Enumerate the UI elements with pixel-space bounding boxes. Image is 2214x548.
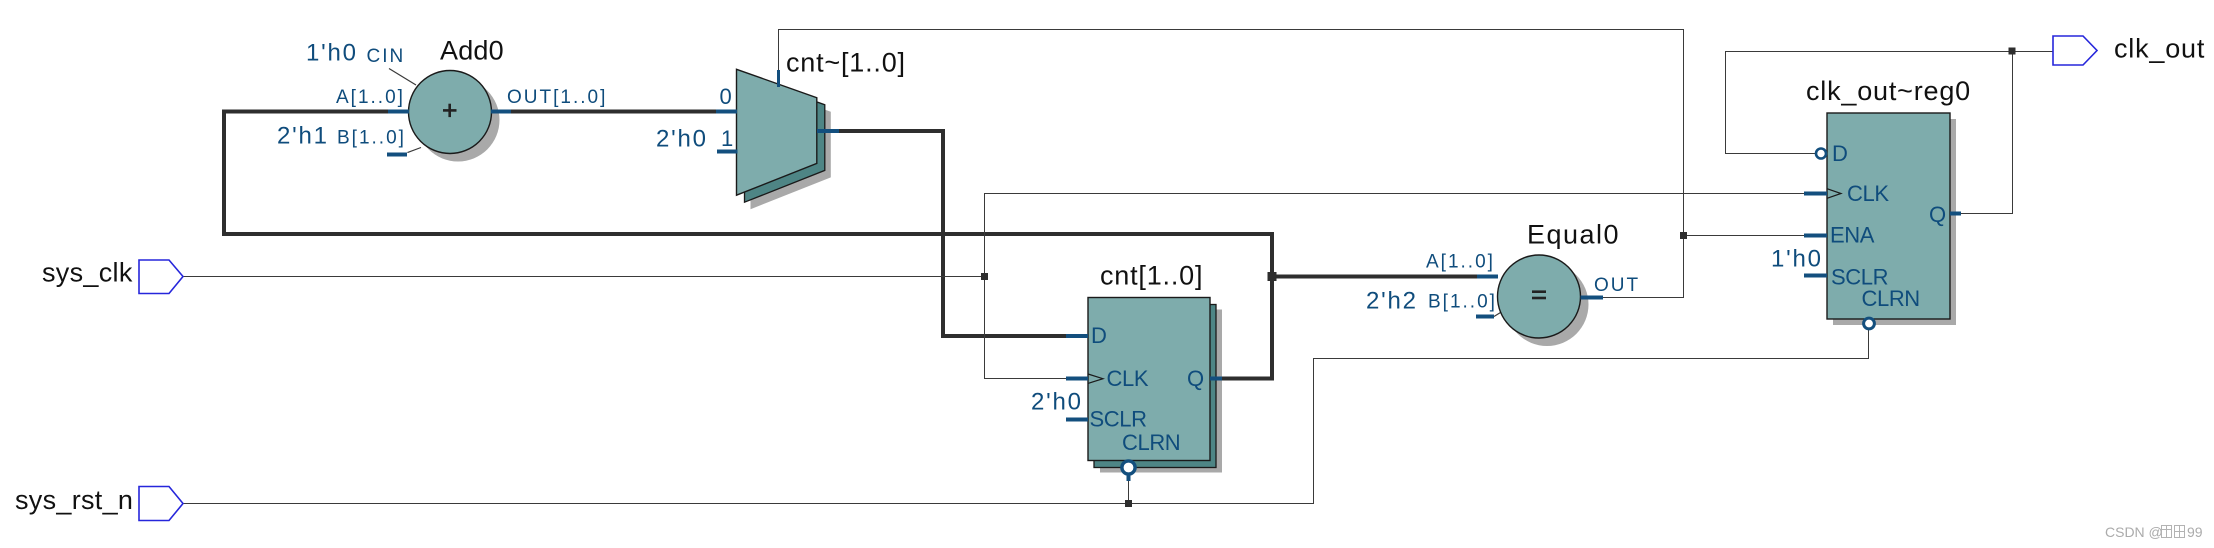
- svg-text:A[1..0]: A[1..0]: [1426, 252, 1495, 273]
- svg-text:OUT[1..0]: OUT[1..0]: [507, 87, 607, 108]
- svg-text:sys_rst_n: sys_rst_n: [15, 485, 133, 515]
- svg-text:cnt~[1..0]: cnt~[1..0]: [786, 48, 906, 78]
- svg-text:99: 99: [2187, 524, 2203, 540]
- svg-text:D: D: [1091, 323, 1107, 348]
- svg-text:cnt[1..0]: cnt[1..0]: [1100, 261, 1203, 291]
- svg-text:D: D: [1832, 141, 1848, 166]
- svg-text:2'h0: 2'h0: [1031, 389, 1083, 416]
- svg-text:Add0: Add0: [440, 36, 504, 66]
- svg-text:clk_out~reg0: clk_out~reg0: [1806, 76, 1971, 106]
- svg-text:1: 1: [721, 126, 733, 151]
- svg-text:2'h2: 2'h2: [1366, 288, 1418, 315]
- svg-text:1'h0: 1'h0: [1771, 246, 1823, 273]
- svg-text:CLK: CLK: [1107, 366, 1149, 391]
- svg-text:B[1..0]: B[1..0]: [337, 128, 406, 149]
- svg-text:B[1..0]: B[1..0]: [1428, 292, 1497, 313]
- svg-text:SCLR: SCLR: [1090, 407, 1147, 432]
- svg-text:0: 0: [720, 84, 732, 109]
- svg-text:sys_clk: sys_clk: [42, 258, 133, 288]
- svg-text:Q: Q: [1187, 366, 1204, 391]
- svg-text:2'h0: 2'h0: [656, 126, 708, 153]
- svg-text:CIN: CIN: [367, 46, 406, 67]
- svg-text:1'h0: 1'h0: [306, 40, 358, 67]
- svg-text:CLK: CLK: [1847, 181, 1889, 206]
- svg-text:Equal0: Equal0: [1527, 220, 1620, 250]
- svg-text:2'h1: 2'h1: [277, 123, 329, 150]
- svg-text:ENA: ENA: [1830, 223, 1875, 248]
- svg-text:clk_out: clk_out: [2114, 34, 2205, 64]
- svg-text:CSDN @: CSDN @: [2105, 524, 2163, 540]
- svg-text:OUT: OUT: [1594, 275, 1640, 296]
- svg-text:CLRN: CLRN: [1862, 286, 1920, 311]
- svg-text:CLRN: CLRN: [1122, 430, 1180, 455]
- svg-text:A[1..0]: A[1..0]: [336, 87, 405, 108]
- svg-text:Q: Q: [1929, 202, 1946, 227]
